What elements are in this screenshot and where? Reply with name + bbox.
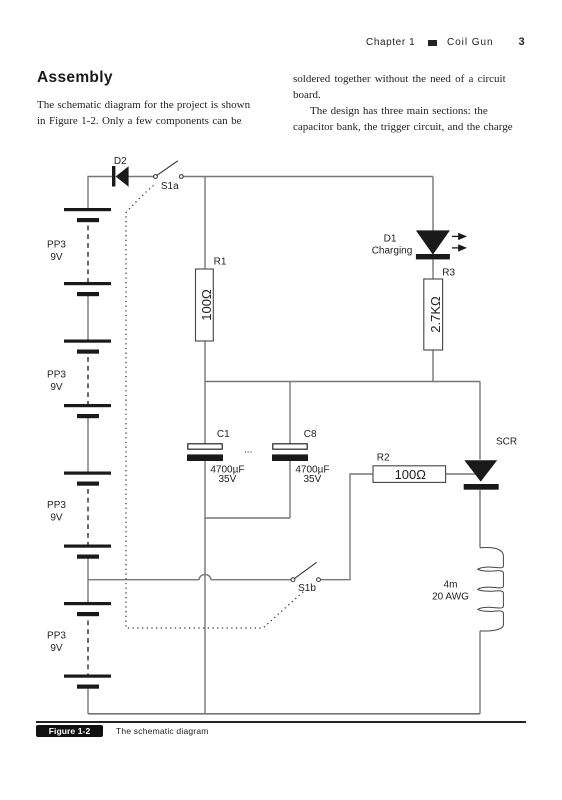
svg-text:35V: 35V <box>219 474 237 485</box>
svg-text:35V: 35V <box>304 474 322 485</box>
svg-text:...: ... <box>244 445 252 456</box>
svg-text:C8: C8 <box>304 429 317 440</box>
svg-text:20 AWG: 20 AWG <box>432 592 469 603</box>
svg-text:100Ω: 100Ω <box>199 289 214 321</box>
svg-text:9V: 9V <box>50 382 63 393</box>
svg-text:D1: D1 <box>384 233 397 244</box>
svg-text:PP3: PP3 <box>47 500 66 511</box>
svg-text:R3: R3 <box>442 268 455 279</box>
svg-text:PP3: PP3 <box>47 370 66 381</box>
svg-text:9V: 9V <box>50 513 63 524</box>
svg-text:4m: 4m <box>444 579 458 590</box>
svg-text:2.7KΩ: 2.7KΩ <box>428 296 443 333</box>
svg-text:S1a: S1a <box>161 181 179 192</box>
svg-text:R2: R2 <box>377 453 390 464</box>
svg-text:100Ω: 100Ω <box>395 467 427 482</box>
svg-text:9V: 9V <box>50 643 63 654</box>
svg-text:PP3: PP3 <box>47 240 66 251</box>
svg-text:C1: C1 <box>217 429 230 440</box>
svg-text:Charging: Charging <box>372 246 413 257</box>
svg-text:9V: 9V <box>50 252 63 263</box>
svg-text:R1: R1 <box>214 257 227 268</box>
svg-text:S1b: S1b <box>298 583 316 594</box>
svg-text:PP3: PP3 <box>47 631 66 642</box>
svg-text:SCR: SCR <box>496 437 517 448</box>
svg-text:D2: D2 <box>114 156 127 167</box>
